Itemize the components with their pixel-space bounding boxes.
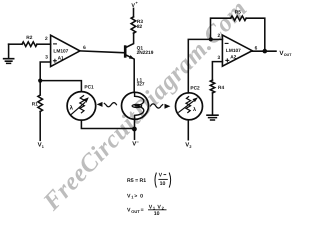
svg-text:−: − (136, 139, 139, 144)
svg-text:OUT: OUT (284, 53, 292, 57)
svg-text:LM107: LM107 (226, 48, 241, 54)
svg-text:2: 2 (189, 145, 191, 149)
svg-text:λ: λ (70, 104, 74, 111)
svg-text:3: 3 (218, 55, 221, 61)
svg-text:R4: R4 (218, 85, 224, 91)
svg-text:LM107: LM107 (53, 49, 68, 55)
svg-text:R1: R1 (32, 102, 38, 108)
svg-text:6: 6 (83, 45, 86, 51)
svg-text:A2: A2 (230, 54, 236, 60)
svg-text:PC2: PC2 (190, 86, 200, 92)
svg-text:+: + (136, 1, 139, 5)
svg-text:1: 1 (42, 145, 44, 149)
svg-text:OUT: OUT (131, 209, 140, 214)
svg-text:2N2219: 2N2219 (137, 50, 154, 56)
svg-text:R2: R2 (26, 35, 32, 41)
svg-text:PC1: PC1 (84, 85, 94, 91)
svg-text:λ: λ (193, 106, 196, 113)
svg-text:82: 82 (137, 24, 143, 30)
svg-text:=: = (141, 208, 144, 214)
svg-text:R5 = R1: R5 = R1 (127, 178, 146, 184)
svg-text:3: 3 (45, 55, 48, 61)
svg-text:2: 2 (218, 33, 221, 39)
svg-text:10: 10 (160, 181, 166, 187)
svg-text:0: 0 (140, 193, 143, 199)
svg-text:R5: R5 (235, 10, 241, 16)
svg-text:327: 327 (137, 82, 145, 88)
svg-text:V: V (159, 173, 163, 179)
svg-text:6: 6 (255, 46, 258, 52)
svg-text:2: 2 (45, 36, 48, 42)
svg-text:>: > (134, 193, 137, 199)
svg-text:10: 10 (154, 211, 160, 217)
svg-text:A1: A1 (58, 55, 64, 61)
